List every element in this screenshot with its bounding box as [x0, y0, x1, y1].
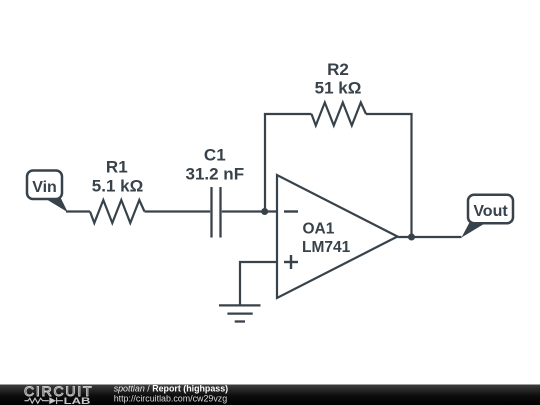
svg-text:C1: C1: [204, 146, 226, 165]
wire feedback top right: [366, 113, 413, 115]
capacitor C1: [212, 187, 221, 238]
footer bar: [0, 385, 540, 405]
svg-text:R1: R1: [106, 158, 128, 177]
svg-text:51 kΩ: 51 kΩ: [315, 79, 362, 98]
svg-text:Vin: Vin: [32, 179, 57, 196]
node junction at inverting input: [261, 208, 268, 215]
svg-text:Vout: Vout: [473, 203, 508, 220]
ground: [219, 305, 261, 321]
CircuitLab logo waveform: [25, 397, 63, 404]
resistor R2: [312, 103, 367, 126]
wire C1 to op-amp inverting input: [222, 210, 277, 212]
resistor R1: [90, 200, 145, 223]
svg-text:http://circuitlab.com/cw29vzg: http://circuitlab.com/cw29vzg: [114, 394, 228, 404]
svg-text:5.1 kΩ: 5.1 kΩ: [92, 177, 143, 196]
svg-text:OA1: OA1: [303, 221, 335, 238]
svg-text:R2: R2: [327, 60, 349, 79]
wire feedback top left: [264, 113, 312, 115]
svg-text:LM741: LM741: [302, 239, 351, 256]
svg-text:31.2 nF: 31.2 nF: [186, 165, 245, 184]
svg-text:LAB: LAB: [64, 396, 91, 405]
wire op-amp non-inverting input to ground: [240, 262, 277, 305]
wire feedback left vertical: [264, 114, 266, 212]
svg-text:spottian / Report (highpass): spottian / Report (highpass): [114, 384, 228, 394]
terminal Vin: [27, 171, 68, 213]
op-amp OA1: [277, 175, 398, 298]
terminal Vout: [462, 195, 514, 238]
wire R1 to C1: [145, 210, 211, 212]
wire op-amp output to Vout: [398, 236, 462, 238]
node output junction: [408, 234, 415, 241]
wire Vin to R1: [66, 210, 90, 212]
wire feedback right vertical: [410, 114, 412, 237]
